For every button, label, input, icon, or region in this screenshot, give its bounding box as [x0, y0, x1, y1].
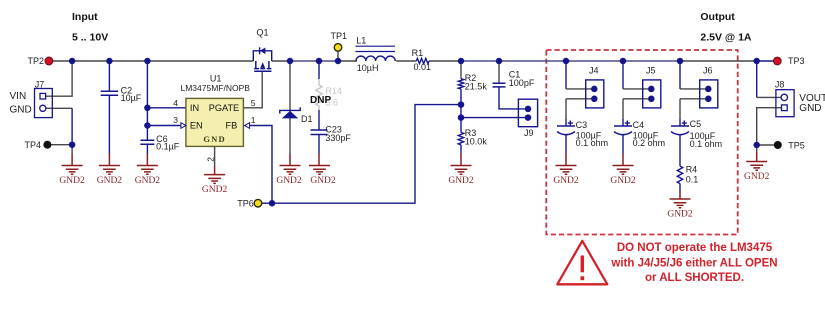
svg-text:R4: R4: [686, 165, 698, 175]
resistor R2: [458, 79, 463, 89]
svg-text:FB: FB: [226, 120, 238, 130]
svg-text:GND2: GND2: [744, 172, 770, 182]
svg-text:GND: GND: [203, 134, 226, 144]
test point TP4: [43, 141, 51, 149]
ground stub D1: [289, 154, 291, 166]
svg-text:3: 3: [173, 115, 178, 125]
svg-text:GND2: GND2: [202, 185, 228, 195]
junction TP5 node: [753, 142, 760, 149]
capacitor C2: [101, 91, 118, 95]
wire divider to J9: [461, 117, 525, 119]
svg-text:Q1: Q1: [257, 28, 269, 38]
svg-text:10.0k: 10.0k: [465, 137, 488, 147]
ground stub C23: [318, 154, 320, 166]
wire FB net to TP6 and divider: [250, 105, 461, 204]
svg-text:TP5: TP5: [788, 140, 805, 150]
svg-text:0.1 ohm: 0.1 ohm: [690, 139, 723, 149]
svg-text:GND: GND: [10, 104, 32, 115]
svg-text:GND2: GND2: [610, 176, 636, 186]
wire J6 column: [680, 61, 708, 126]
ground C2: [99, 166, 120, 175]
svg-text:DO NOT operate the LM3475: DO NOT operate the LM3475: [617, 242, 773, 254]
ground C6: [137, 166, 158, 175]
svg-text:Output: Output: [700, 11, 735, 23]
connector J9: [518, 99, 537, 138]
svg-text:0.01: 0.01: [414, 62, 432, 72]
capacitor C1: [493, 83, 506, 87]
test point TP1: [337, 51, 339, 61]
resistor R4: [677, 166, 682, 184]
ground stub C2: [108, 154, 110, 166]
test point TP6: [254, 199, 262, 207]
svg-text:0.1: 0.1: [686, 175, 699, 185]
svg-text:10µH: 10µH: [357, 63, 379, 73]
FB input arrow: [244, 123, 249, 129]
wire IN pin: [147, 107, 186, 109]
op-amp U1 (LM3475 regulator): [173, 74, 256, 162]
svg-text:C4: C4: [633, 120, 645, 130]
svg-text:GND2: GND2: [553, 176, 579, 186]
svg-text:GND2: GND2: [59, 176, 85, 186]
inductor L1: [356, 56, 395, 61]
ground C23: [309, 166, 330, 175]
svg-text:10µF: 10µF: [121, 93, 142, 103]
svg-text:0.1 ohm: 0.1 ohm: [576, 138, 609, 148]
svg-text:LM3475MF/NOPB: LM3475MF/NOPB: [181, 83, 251, 93]
svg-text:21.5k: 21.5k: [465, 82, 488, 92]
capacitor C4: [614, 120, 665, 166]
ground stub U1 pin2: [214, 166, 216, 175]
svg-text:J6: J6: [703, 66, 713, 76]
capacitor C23: [311, 130, 328, 135]
wire TP6 stub: [262, 202, 272, 204]
connector J7: [10, 80, 53, 118]
svg-text:D1: D1: [301, 114, 313, 124]
wire J5 column: [623, 61, 651, 126]
junction D1 switch node: [287, 58, 294, 65]
svg-text:2: 2: [205, 157, 215, 162]
ground R3: [451, 166, 472, 175]
connector J8: [775, 80, 825, 117]
junction C1 output node: [496, 58, 503, 65]
svg-text:C3: C3: [576, 120, 588, 130]
svg-text:TP4: TP4: [24, 140, 41, 150]
test point TP2: [45, 57, 53, 65]
junction TP1 switch node: [335, 58, 342, 65]
capacitor C5: [671, 119, 722, 166]
svg-text:L1: L1: [356, 36, 366, 46]
svg-text:R1: R1: [412, 48, 424, 58]
wire R3 to ground: [460, 145, 462, 154]
wire EN pin: [147, 125, 181, 127]
diode D1 (schottky): [280, 107, 313, 124]
wire J8 GND pin to TP5: [757, 108, 782, 145]
svg-text:J4: J4: [589, 66, 599, 76]
wire D1 vertical: [289, 61, 291, 154]
wire L1 to R1: [396, 60, 416, 62]
svg-text:GND2: GND2: [448, 176, 474, 186]
svg-text:GND: GND: [799, 103, 821, 114]
junction J7-VIN rail node: [69, 58, 76, 65]
wire C1 column: [498, 61, 500, 83]
wire PGATE to Q1 gate: [243, 71, 262, 108]
svg-text:GND2: GND2: [310, 176, 336, 186]
junction TP3/J8 output node: [753, 58, 760, 65]
wire output rail: [429, 60, 461, 62]
wire TP4 stub: [51, 145, 72, 154]
svg-text:with J4/J5/J6 either ALL OPEN: with J4/J5/J6 either ALL OPEN: [610, 257, 777, 269]
svg-text:Input: Input: [72, 11, 98, 23]
junction IN pin node: [144, 105, 151, 112]
svg-text:5 .. 10V: 5 .. 10V: [72, 32, 108, 44]
ground C4: [613, 166, 634, 175]
svg-text:0.1µF: 0.1µF: [156, 141, 180, 151]
wire J8 VOUT pin: [756, 61, 758, 97]
ground stub TP5: [756, 153, 758, 162]
junction EN pin node: [144, 122, 151, 129]
svg-text:or ALL SHORTED.: or ALL SHORTED.: [645, 272, 744, 284]
warning triangle: [557, 241, 607, 284]
ground stub R4: [679, 184, 681, 191]
wire switch-node rail: [272, 60, 290, 62]
svg-text:4: 4: [173, 98, 178, 108]
junction C6/IN rail node: [144, 58, 151, 65]
junction TP6 node: [269, 200, 276, 207]
ground D1: [280, 166, 301, 175]
capacitor C6: [140, 140, 154, 144]
svg-text:DNP: DNP: [310, 95, 331, 106]
ground stub R3: [460, 154, 462, 166]
wire C6/EN column: [146, 61, 148, 154]
capacitor C3: [557, 120, 608, 166]
svg-text:GND2: GND2: [276, 176, 302, 186]
svg-text:J8: J8: [775, 80, 785, 90]
svg-text:EN: EN: [190, 120, 203, 130]
svg-text:TP6: TP6: [237, 198, 254, 208]
svg-text:GND2: GND2: [135, 176, 161, 186]
ground C3: [556, 166, 577, 175]
transistor Q1 (PMOS): [253, 28, 271, 72]
svg-text:TP2: TP2: [27, 56, 44, 66]
test point TP5: [774, 141, 782, 149]
wire J4 column: [566, 61, 594, 126]
ground TP5/J8: [746, 162, 767, 171]
svg-text:PGATE: PGATE: [209, 103, 239, 113]
svg-text:GND2: GND2: [667, 209, 693, 219]
wire J7 VIN pin to rail: [46, 61, 73, 96]
wire C23 column: [318, 61, 320, 154]
junction C2 rail node: [106, 58, 113, 65]
dashed DNP-warning box: [546, 50, 737, 235]
ground TP4/J7: [62, 166, 83, 175]
svg-text:VIN: VIN: [10, 91, 27, 102]
resistor R1: [416, 58, 429, 63]
test point TP3: [774, 57, 782, 65]
junction J5 output node: [620, 58, 627, 65]
svg-text:5: 5: [251, 98, 256, 108]
EN input arrow: [181, 123, 186, 129]
junction C23 switch node: [316, 58, 323, 65]
junction J6 output node: [677, 58, 684, 65]
resistor R3: [458, 132, 463, 144]
junction FB divider node lower: [458, 114, 465, 121]
wire U1 pin2 stub: [214, 146, 216, 166]
wire R2 column: [460, 61, 462, 79]
svg-text:1: 1: [251, 115, 256, 125]
svg-text:GND2: GND2: [97, 176, 123, 186]
svg-text:J9: J9: [524, 128, 534, 138]
ground U1: [204, 175, 225, 184]
junction TP4 node: [69, 141, 76, 148]
wire input rail: [53, 60, 253, 62]
ground stub C6: [146, 154, 148, 166]
wire J7 GND pin down: [46, 107, 73, 109]
svg-text:J5: J5: [646, 66, 656, 76]
resistor R14 ghost DNP: [316, 79, 322, 110]
svg-text:IN: IN: [190, 103, 199, 113]
connector J4: [586, 66, 604, 108]
svg-text:2.5V @ 1A: 2.5V @ 1A: [700, 31, 752, 43]
junction FB divider node upper: [458, 101, 465, 108]
ground R4: [670, 199, 691, 208]
wire C2 column: [108, 61, 110, 154]
svg-text:TP1: TP1: [331, 31, 348, 41]
svg-text:J7: J7: [35, 80, 45, 90]
wire TP5 ground stub: [756, 145, 758, 153]
junction J4 output node: [563, 58, 570, 65]
svg-text:330pF: 330pF: [325, 133, 351, 143]
connector J5: [643, 66, 661, 108]
svg-text:100pF: 100pF: [509, 78, 535, 88]
svg-text:C5: C5: [690, 119, 702, 129]
svg-text:TP3: TP3: [788, 56, 805, 66]
connector J6: [700, 66, 718, 108]
ground stub TP4: [71, 154, 73, 166]
junction R2 output node: [458, 58, 465, 65]
svg-text:0.2 ohm: 0.2 ohm: [633, 138, 666, 148]
